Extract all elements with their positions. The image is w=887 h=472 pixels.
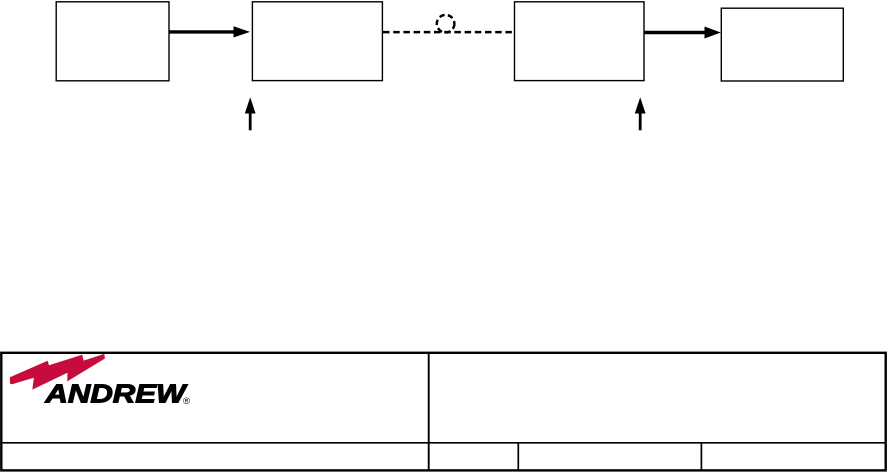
title block outer border <box>1 353 885 471</box>
box 3 <box>515 2 645 81</box>
box 4 <box>721 8 843 81</box>
svg-text:®: ® <box>183 396 190 407</box>
dashed wire (box2 to box3) <box>383 31 514 34</box>
up arrow 1 (below box2) <box>245 97 256 130</box>
arrow 1 (box1 to box2) <box>169 26 250 37</box>
box 2 <box>252 2 382 81</box>
box 1 <box>56 2 169 81</box>
title block bottom row divider 1 <box>517 443 519 470</box>
up arrow 2 (below box3) <box>635 97 646 130</box>
title block horizontal divider <box>1 442 886 444</box>
title block main vertical divider <box>428 352 430 471</box>
arrow 2 (box3 to box4) <box>644 27 721 39</box>
svg-text:ANDREW: ANDREW <box>44 378 188 408</box>
Andrew logo red flash <box>10 354 105 390</box>
title block bottom row divider 2 <box>700 443 702 470</box>
dashed circle (loop on wire) <box>437 15 455 33</box>
